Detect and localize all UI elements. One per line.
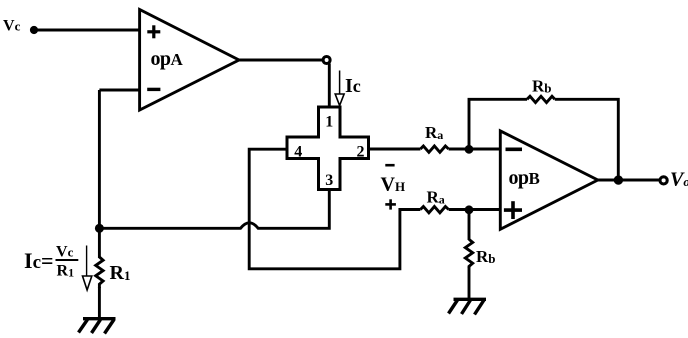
svg-text:opB: opB [509, 167, 540, 189]
svg-text:1: 1 [325, 113, 333, 130]
svg-text:3: 3 [325, 172, 333, 189]
svg-text:Vc: Vc [3, 18, 21, 35]
svg-text:2: 2 [357, 144, 365, 161]
svg-text:Ic: Ic [345, 75, 361, 97]
svg-text:Ic=: Ic= [24, 248, 54, 273]
svg-text:Vc: Vc [56, 244, 74, 261]
svg-text:opA: opA [151, 48, 184, 70]
svg-text:R1: R1 [57, 263, 75, 280]
svg-text:4: 4 [294, 144, 302, 161]
